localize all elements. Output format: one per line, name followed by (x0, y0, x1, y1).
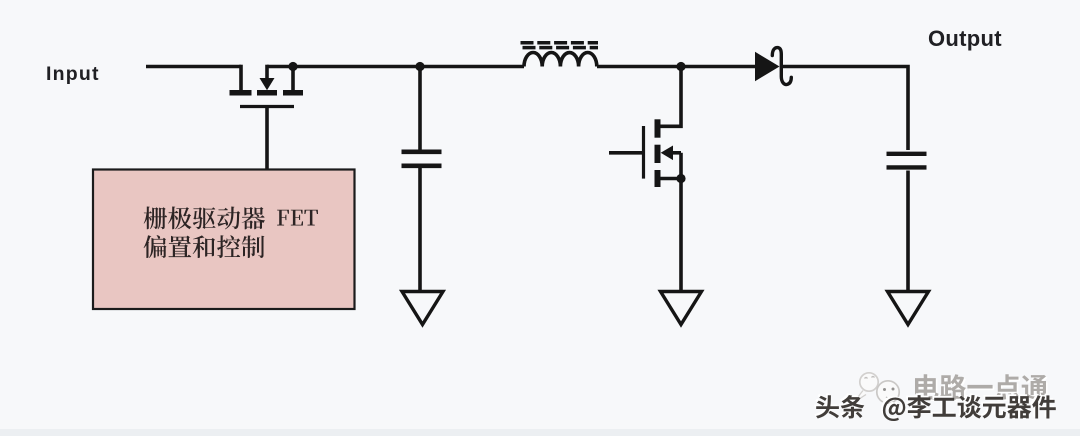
box text "极" (168, 207, 191, 230)
watermark "件" (1030, 393, 1054, 416)
watermark "李" (906, 393, 930, 416)
watermark "@" (881, 396, 903, 420)
watermark logo: small bubble (857, 373, 879, 400)
watermark "点" (996, 376, 1022, 401)
watermark logo: big bubble face (877, 381, 899, 403)
watermark "一" (969, 387, 994, 391)
node: junction dot Q1 drain (288, 62, 297, 71)
watermark "谈" (956, 393, 980, 416)
wire: diode cathode to output corner and down to C2 (783, 67, 908, 151)
wire: inductor to diode anode (597, 65, 756, 69)
box text "F" (277, 210, 289, 226)
box text "动" (217, 207, 240, 230)
capacitor C2 (output) (887, 154, 927, 168)
box text "偏" (144, 235, 167, 258)
label Input (46, 63, 100, 86)
transistor Q1 (P-channel MOSFET, series pass) (230, 65, 304, 107)
wire: C1 to ground (418, 168, 422, 291)
ground (Q2) (661, 292, 702, 325)
box text "制" (242, 236, 265, 259)
gate driver block (栅极驱动器 FET 偏置和控制) (93, 170, 355, 310)
wire: C2 to ground (906, 171, 910, 292)
watermark "路" (942, 376, 968, 402)
wire: down to Q2 drain (659, 67, 681, 127)
watermark "电" (917, 376, 941, 401)
ground (C2) (888, 292, 929, 325)
box text "E" (291, 210, 303, 226)
inductor core (dashed lines) (521, 41, 599, 45)
node: junction dot at C1 branch (415, 62, 424, 71)
wire: Q2 source to ground (679, 179, 683, 292)
transistor Q2 (N-channel MOSFET, shunt switch) (609, 119, 681, 187)
box text "置" (169, 236, 192, 258)
ground (C1) (402, 292, 443, 325)
wire: down to C1 (418, 67, 422, 150)
box text "驱" (193, 207, 216, 229)
watermark "通" (1023, 377, 1049, 402)
box text "和" (193, 235, 215, 258)
box text "栅" (144, 207, 167, 230)
node: junction dot at Q2 branch (676, 62, 685, 71)
wire: Q1 gate lead to driver box (265, 107, 269, 171)
label Output (928, 26, 1002, 52)
box text "T" (304, 210, 318, 226)
box text "控" (217, 235, 240, 258)
diode D1 cathode bar (772, 48, 791, 85)
watermark "条" (839, 393, 863, 417)
inductor L1 (521, 43, 599, 67)
wire: Q1 drain to inductor (293, 65, 524, 69)
box text "器" (242, 207, 265, 229)
node: junction dot Q2 source (676, 174, 685, 183)
watermark "器" (1005, 394, 1029, 416)
diode D1 (schottky) (755, 48, 791, 85)
wire: input segment (146, 65, 241, 69)
watermark "工" (931, 396, 954, 415)
capacitor C1 (input side) (402, 152, 442, 166)
watermark "头" (814, 393, 837, 416)
watermark "元" (981, 395, 1005, 417)
